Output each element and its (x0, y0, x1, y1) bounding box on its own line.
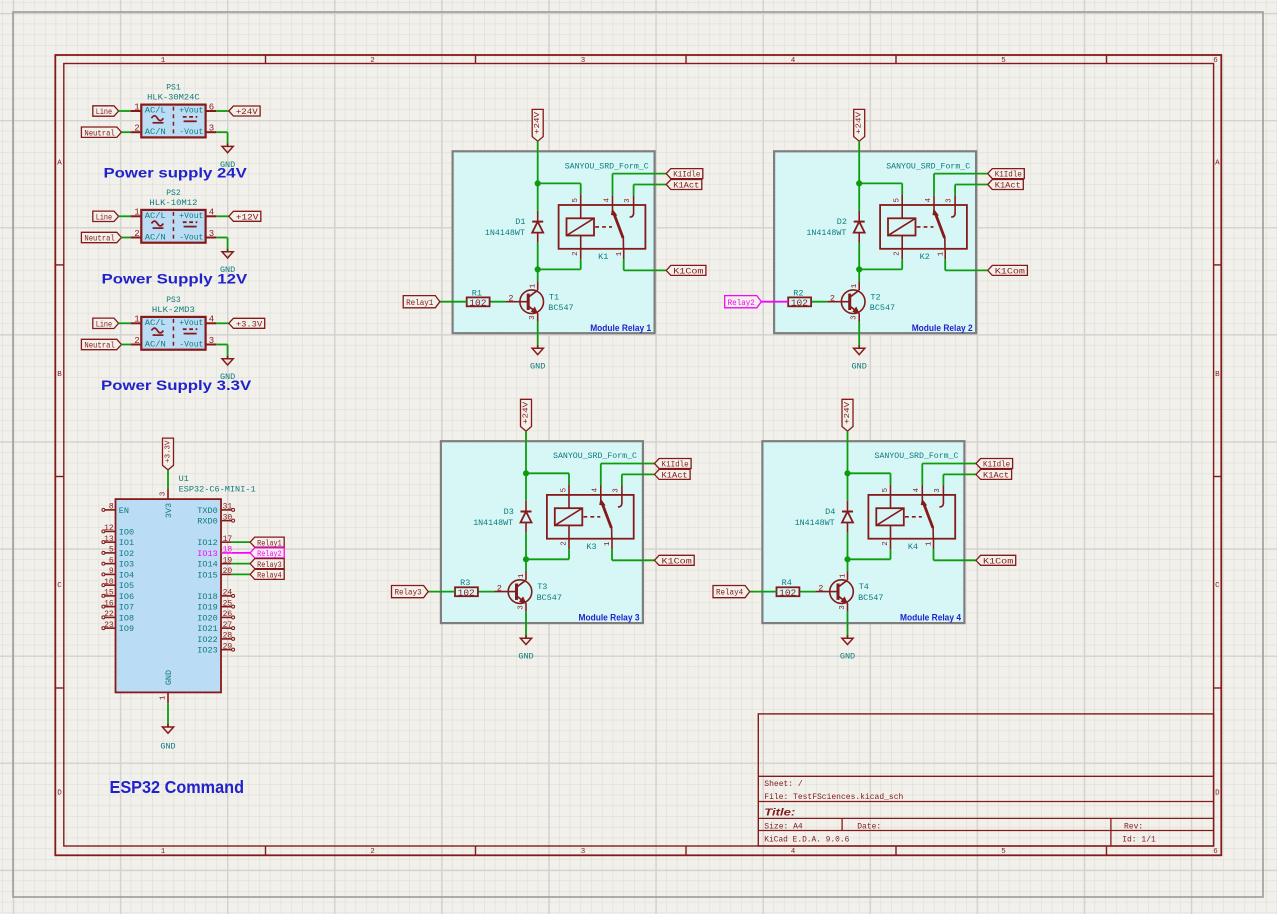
svg-text:HLK-2MD3: HLK-2MD3 (152, 305, 195, 315)
svg-text:SANYOU_SRD_Form_C: SANYOU_SRD_Form_C (875, 451, 959, 461)
svg-text:4: 4 (592, 487, 600, 492)
svg-text:16: 16 (104, 599, 114, 608)
svg-text:25: 25 (223, 599, 233, 608)
svg-text:BC547: BC547 (858, 593, 883, 603)
svg-text:2: 2 (894, 251, 902, 256)
svg-text:+Vout: +Vout (179, 107, 203, 116)
svg-text:C: C (57, 582, 62, 590)
svg-text:6: 6 (1213, 848, 1218, 856)
svg-text:3: 3 (209, 229, 214, 239)
svg-text:B: B (57, 371, 62, 379)
svg-text:22: 22 (104, 610, 114, 619)
svg-text:3: 3 (946, 198, 954, 203)
svg-text:Module Relay 4: Module Relay 4 (900, 613, 961, 623)
svg-text:Relay2: Relay2 (728, 298, 755, 308)
svg-text:IO18: IO18 (197, 592, 217, 602)
svg-text:3: 3 (209, 336, 214, 346)
svg-text:KiCad E.D.A. 9.0.6: KiCad E.D.A. 9.0.6 (764, 835, 849, 844)
svg-text:1: 1 (937, 251, 945, 256)
svg-text:10: 10 (104, 578, 114, 587)
svg-text:3: 3 (612, 488, 620, 493)
svg-text:5: 5 (1001, 848, 1006, 856)
svg-text:IO14: IO14 (197, 560, 217, 570)
svg-text:4: 4 (791, 57, 796, 65)
svg-text:GND: GND (852, 361, 867, 371)
svg-text:K1Act: K1Act (983, 471, 1009, 481)
svg-text:T3: T3 (537, 582, 547, 592)
svg-text:K1Act: K1Act (995, 181, 1021, 191)
svg-text:GND: GND (160, 741, 175, 751)
svg-text:IO9: IO9 (119, 624, 134, 634)
svg-text:4: 4 (925, 197, 933, 202)
svg-text:TXD0: TXD0 (197, 506, 217, 516)
svg-text:Relay2: Relay2 (257, 549, 282, 559)
svg-text:2: 2 (572, 251, 580, 256)
svg-text:IO3: IO3 (119, 560, 134, 570)
svg-text:+24V: +24V (856, 111, 864, 134)
svg-text:102: 102 (458, 587, 475, 598)
svg-text:+24V: +24V (236, 107, 259, 117)
svg-text:IO21: IO21 (197, 624, 217, 634)
svg-text:20: 20 (223, 567, 233, 576)
svg-text:23: 23 (104, 621, 114, 630)
svg-text:1: 1 (134, 208, 139, 218)
svg-text:ESP32-C6-MINI-1: ESP32-C6-MINI-1 (179, 485, 256, 495)
svg-text:6: 6 (109, 556, 114, 565)
svg-text:1: 1 (851, 283, 859, 288)
svg-text:AC/N: AC/N (145, 233, 166, 242)
svg-text:IO22: IO22 (197, 635, 217, 645)
svg-text:29: 29 (223, 642, 233, 651)
svg-text:K1Act: K1Act (662, 471, 688, 481)
svg-text:IO23: IO23 (197, 646, 217, 656)
svg-text:26: 26 (223, 610, 233, 619)
svg-text:9: 9 (109, 567, 114, 576)
svg-text:4: 4 (913, 487, 921, 492)
svg-text:IO0: IO0 (119, 527, 134, 537)
svg-text:-Vout: -Vout (179, 340, 203, 349)
svg-text:6: 6 (1213, 57, 1218, 65)
svg-text:24: 24 (223, 589, 233, 598)
svg-text:IO2: IO2 (119, 549, 134, 559)
svg-text:BC547: BC547 (548, 303, 573, 313)
svg-text:K1Idle: K1Idle (662, 460, 689, 470)
svg-text:+12V: +12V (236, 212, 259, 222)
svg-text:2: 2 (508, 294, 513, 304)
svg-text:3: 3 (529, 315, 537, 320)
svg-text:5: 5 (109, 546, 114, 555)
svg-text:2: 2 (561, 541, 569, 546)
svg-text:Sheet: /: Sheet: / (764, 780, 803, 789)
svg-text:GND: GND (518, 651, 533, 661)
svg-text:1N4148WT: 1N4148WT (473, 518, 513, 528)
svg-text:SANYOU_SRD_Form_C: SANYOU_SRD_Form_C (553, 451, 637, 461)
svg-text:2: 2 (818, 583, 823, 593)
svg-text:2: 2 (370, 57, 375, 65)
svg-text:K1Idle: K1Idle (673, 170, 700, 180)
svg-text:D4: D4 (825, 507, 835, 517)
svg-text:A: A (57, 159, 62, 167)
svg-text:1N4148WT: 1N4148WT (795, 518, 835, 528)
svg-text:PS3: PS3 (166, 296, 181, 305)
svg-text:+24V: +24V (844, 401, 852, 424)
svg-text:4: 4 (791, 848, 796, 856)
svg-text:AC/L: AC/L (145, 212, 166, 221)
svg-text:IO5: IO5 (119, 581, 134, 591)
svg-text:Power supply 24V: Power supply 24V (104, 164, 248, 180)
svg-text:1: 1 (518, 573, 526, 578)
svg-text:AC/N: AC/N (145, 128, 166, 137)
svg-text:Neutral: Neutral (84, 128, 115, 138)
svg-text:File: TestFSciences.kicad_sch: File: TestFSciences.kicad_sch (764, 793, 903, 802)
svg-text:D: D (1215, 790, 1220, 798)
svg-text:T4: T4 (859, 582, 869, 592)
svg-text:IO13: IO13 (197, 549, 217, 559)
svg-text:Power Supply 3.3V: Power Supply 3.3V (101, 377, 252, 393)
svg-text:17: 17 (223, 535, 233, 544)
svg-text:K3: K3 (586, 542, 596, 552)
svg-text:5: 5 (894, 197, 902, 202)
svg-text:SANYOU_SRD_Form_C: SANYOU_SRD_Form_C (565, 161, 649, 171)
svg-text:Neutral: Neutral (84, 234, 115, 244)
svg-text:3: 3 (160, 491, 168, 496)
svg-text:102: 102 (791, 297, 808, 308)
svg-text:K1: K1 (598, 252, 608, 262)
svg-text:19: 19 (223, 556, 233, 565)
svg-text:B: B (1215, 371, 1220, 379)
svg-text:PS1: PS1 (166, 84, 181, 93)
svg-text:5: 5 (561, 487, 569, 492)
svg-text:+24V: +24V (534, 111, 542, 134)
svg-text:3: 3 (934, 488, 942, 493)
svg-text:Title:: Title: (764, 807, 795, 819)
svg-text:K4: K4 (908, 542, 918, 552)
svg-text:Module Relay 3: Module Relay 3 (579, 613, 640, 623)
svg-text:3V3: 3V3 (164, 503, 174, 518)
svg-text:Relay3: Relay3 (257, 560, 282, 570)
svg-text:IO12: IO12 (197, 538, 217, 548)
svg-text:5: 5 (1001, 57, 1006, 65)
svg-text:IO7: IO7 (119, 603, 134, 613)
svg-text:T1: T1 (549, 292, 559, 302)
svg-text:IO15: IO15 (197, 570, 217, 580)
svg-text:1N4148WT: 1N4148WT (485, 228, 525, 238)
svg-text:15: 15 (104, 589, 114, 598)
svg-text:5: 5 (572, 197, 580, 202)
svg-text:30: 30 (223, 513, 233, 522)
svg-text:PS2: PS2 (166, 189, 181, 198)
svg-text:Line: Line (96, 212, 112, 222)
svg-text:D1: D1 (515, 217, 525, 227)
svg-text:3: 3 (839, 605, 847, 610)
svg-text:Module Relay 2: Module Relay 2 (912, 323, 973, 333)
svg-text:Relay1: Relay1 (257, 538, 282, 548)
svg-text:1: 1 (161, 57, 166, 65)
svg-text:IO19: IO19 (197, 603, 217, 613)
svg-text:Module Relay 1: Module Relay 1 (590, 323, 651, 333)
svg-text:1N4148WT: 1N4148WT (806, 228, 846, 238)
svg-text:Id: 1/1: Id: 1/1 (1122, 835, 1156, 844)
svg-text:U1: U1 (179, 474, 189, 484)
svg-text:Relay1: Relay1 (406, 298, 433, 308)
svg-text:Relay4: Relay4 (257, 571, 282, 581)
svg-text:BC547: BC547 (870, 303, 895, 313)
svg-text:1: 1 (926, 541, 934, 546)
svg-text:1: 1 (840, 573, 848, 578)
svg-text:1: 1 (530, 283, 538, 288)
svg-text:5: 5 (882, 487, 890, 492)
svg-text:D2: D2 (837, 217, 847, 227)
svg-text:EN: EN (119, 506, 129, 516)
svg-text:4: 4 (209, 208, 214, 218)
svg-text:8: 8 (109, 503, 114, 512)
svg-text:A: A (1215, 159, 1220, 167)
svg-text:31: 31 (223, 503, 233, 512)
svg-text:HLK-30M24C: HLK-30M24C (147, 93, 200, 103)
svg-text:2: 2 (830, 294, 835, 304)
svg-text:+3.3V: +3.3V (164, 440, 172, 463)
svg-text:IO6: IO6 (119, 592, 134, 602)
svg-text:Power Supply 12V: Power Supply 12V (102, 270, 248, 286)
svg-text:SANYOU_SRD_Form_C: SANYOU_SRD_Form_C (886, 161, 970, 171)
svg-text:AC/L: AC/L (145, 319, 166, 328)
svg-text:IO8: IO8 (119, 613, 134, 623)
svg-text:2: 2 (882, 541, 890, 546)
svg-text:3: 3 (851, 315, 859, 320)
svg-text:12: 12 (104, 524, 114, 533)
svg-text:1: 1 (604, 541, 612, 546)
svg-text:Relay3: Relay3 (394, 588, 421, 598)
svg-text:3: 3 (581, 848, 586, 856)
svg-text:K1Act: K1Act (673, 181, 699, 191)
svg-text:13: 13 (104, 535, 114, 544)
svg-text:Line: Line (96, 319, 112, 329)
svg-text:Size: A4: Size: A4 (764, 822, 803, 831)
svg-text:1: 1 (616, 251, 624, 256)
svg-text:K1Idle: K1Idle (983, 460, 1010, 470)
svg-text:6: 6 (209, 102, 214, 112)
svg-text:Relay4: Relay4 (716, 588, 743, 598)
svg-text:AC/N: AC/N (145, 340, 166, 349)
svg-text:+Vout: +Vout (179, 212, 203, 221)
svg-text:2: 2 (134, 229, 139, 239)
svg-text:K1Com: K1Com (662, 556, 692, 566)
svg-text:D: D (57, 790, 62, 798)
svg-text:3: 3 (209, 124, 214, 134)
svg-text:+Vout: +Vout (179, 319, 203, 328)
svg-text:IO20: IO20 (197, 613, 217, 623)
svg-text:C: C (1215, 582, 1220, 590)
svg-text:K2: K2 (920, 252, 930, 262)
svg-text:-Vout: -Vout (179, 128, 203, 137)
svg-text:27: 27 (223, 621, 233, 630)
svg-text:K1Com: K1Com (995, 267, 1025, 277)
svg-text:+3.3V: +3.3V (236, 319, 263, 329)
svg-text:GND: GND (164, 670, 174, 685)
svg-text:GND: GND (840, 651, 855, 661)
svg-text:4: 4 (603, 197, 611, 202)
svg-text:102: 102 (779, 587, 796, 598)
svg-text:3: 3 (581, 57, 586, 65)
svg-text:K1Com: K1Com (673, 267, 703, 277)
svg-text:28: 28 (223, 632, 233, 641)
svg-text:1: 1 (134, 102, 139, 112)
svg-text:D3: D3 (504, 507, 514, 517)
svg-text:1: 1 (134, 315, 139, 325)
svg-text:K1Com: K1Com (983, 556, 1013, 566)
svg-text:Neutral: Neutral (84, 341, 115, 351)
svg-text:18: 18 (223, 546, 233, 555)
svg-text:3: 3 (517, 605, 525, 610)
svg-text:T2: T2 (870, 292, 880, 302)
svg-text:RXD0: RXD0 (197, 517, 217, 527)
svg-text:BC547: BC547 (537, 593, 562, 603)
svg-text:2: 2 (134, 336, 139, 346)
svg-text:Line: Line (96, 107, 112, 117)
svg-text:Date:: Date: (857, 822, 881, 831)
svg-text:+24V: +24V (522, 401, 530, 424)
svg-text:2: 2 (134, 124, 139, 134)
svg-text:HLK-10M12: HLK-10M12 (149, 198, 197, 208)
svg-text:IO1: IO1 (119, 538, 134, 548)
svg-text:2: 2 (497, 583, 502, 593)
svg-text:-Vout: -Vout (179, 233, 203, 242)
svg-text:GND: GND (530, 361, 545, 371)
svg-text:IO4: IO4 (119, 570, 134, 580)
svg-text:4: 4 (209, 315, 214, 325)
svg-text:ESP32 Command: ESP32 Command (110, 777, 245, 797)
svg-text:1: 1 (160, 695, 168, 700)
svg-text:1: 1 (161, 848, 166, 856)
svg-text:AC/L: AC/L (145, 107, 166, 116)
svg-text:2: 2 (370, 848, 375, 856)
svg-text:3: 3 (624, 198, 632, 203)
svg-text:K1Idle: K1Idle (995, 170, 1022, 180)
svg-text:102: 102 (469, 297, 486, 308)
svg-text:Rev:: Rev: (1124, 822, 1143, 831)
